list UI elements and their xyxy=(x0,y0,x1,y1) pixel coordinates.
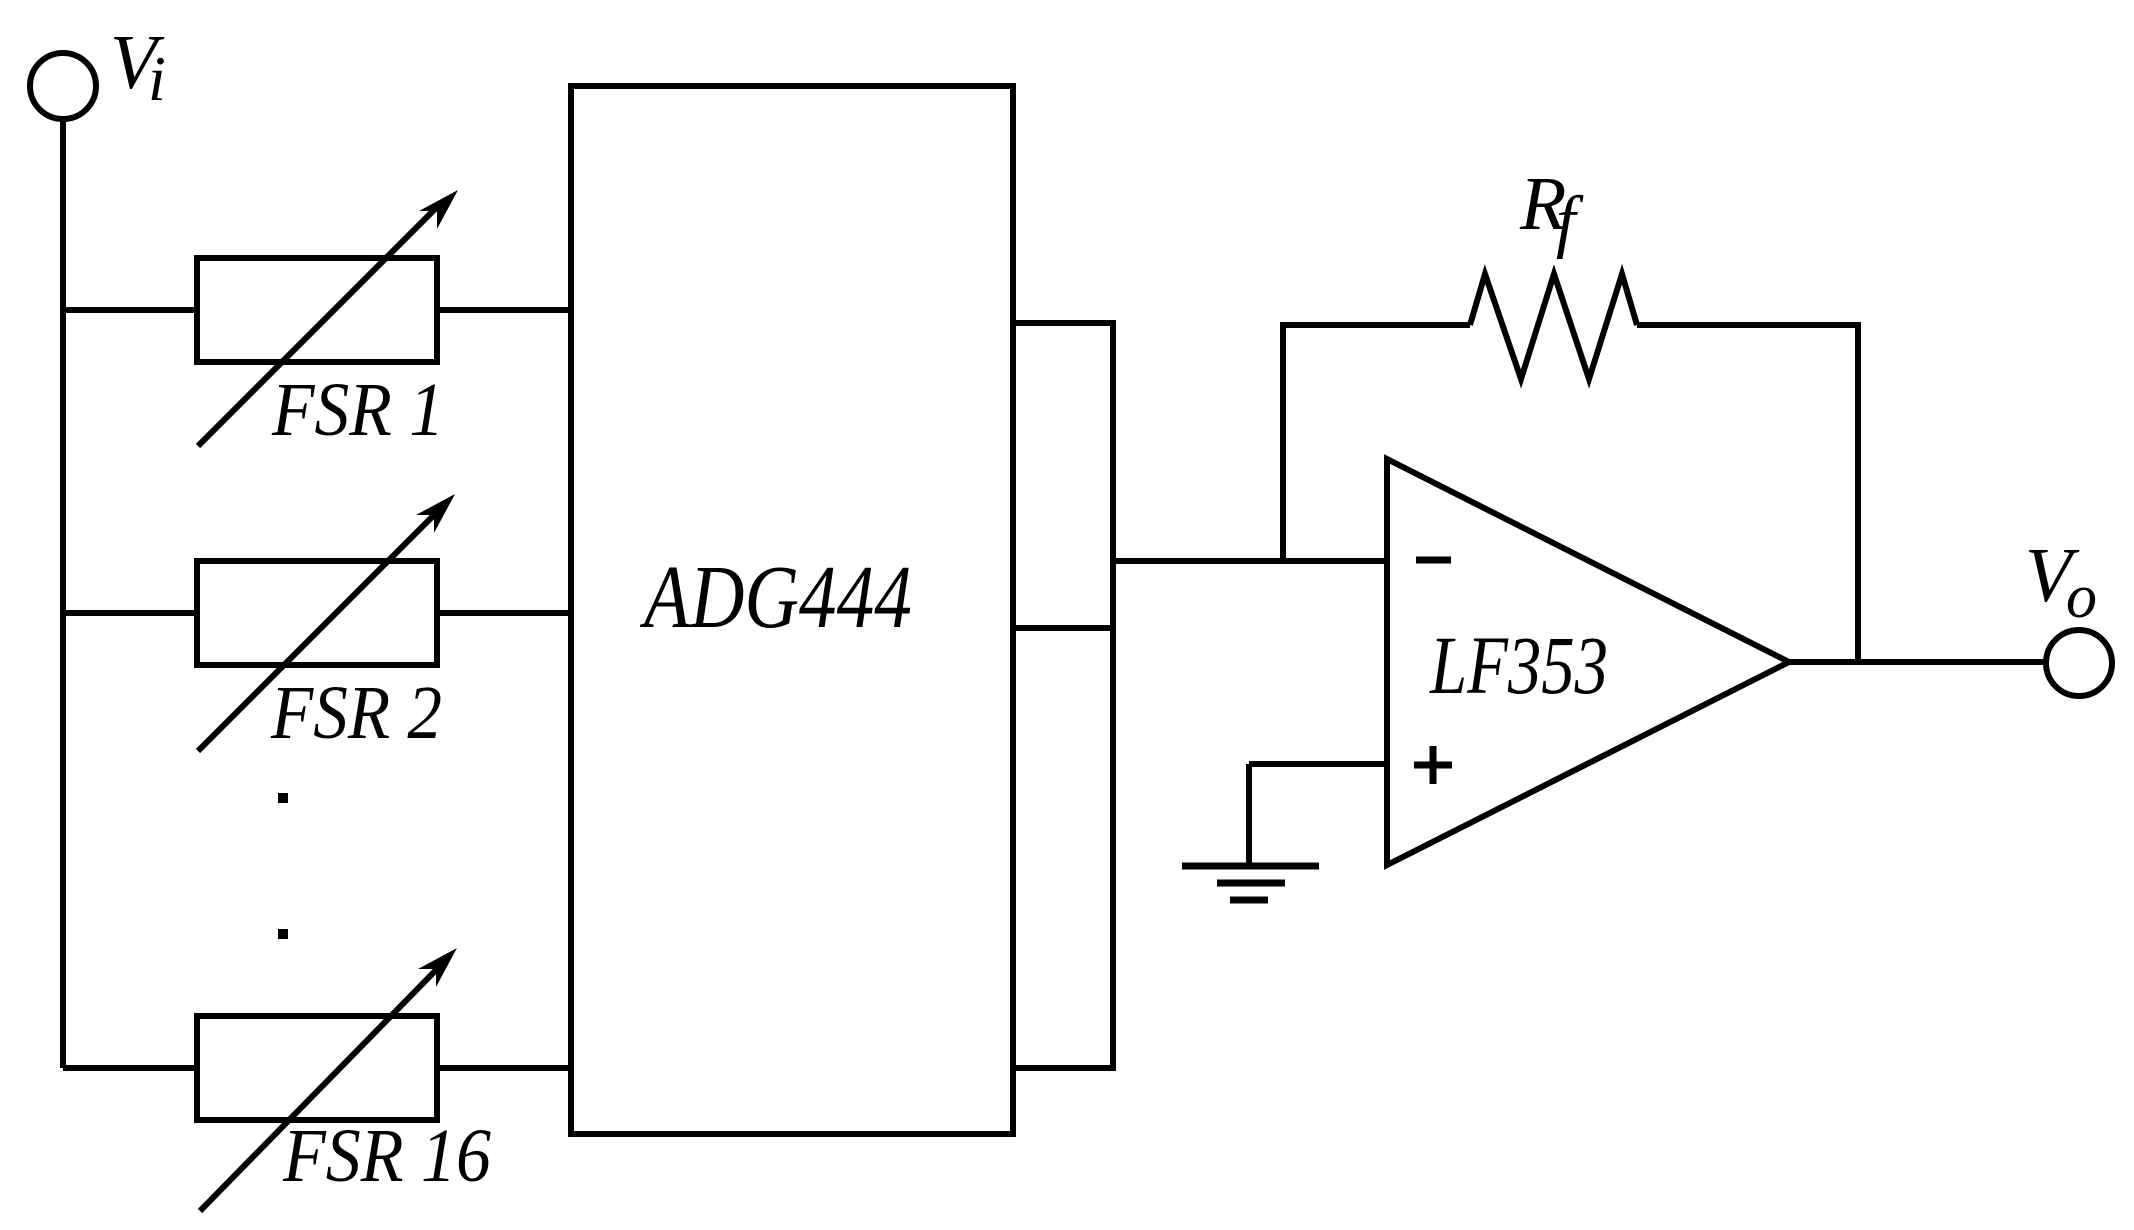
wire: feedback right vertical xyxy=(1855,325,1861,662)
resistor Rf zigzag xyxy=(1470,274,1637,379)
wire: bus to FSR1 xyxy=(63,307,200,313)
multiplexer ADG444 xyxy=(571,86,1013,1134)
wire: FSR2 to ADG444 xyxy=(437,610,574,616)
wire: FSR16 to ADG444 xyxy=(437,1065,574,1071)
wire: ground drop xyxy=(1246,764,1252,866)
label Rf xyxy=(1519,162,1584,260)
resistor FSR16 arrow xyxy=(200,948,457,1211)
wire: feedback left vertical xyxy=(1280,325,1286,561)
resistor FSR16 body xyxy=(197,1016,437,1120)
ground xyxy=(1182,866,1319,900)
wire: bus to FSR16 xyxy=(63,1065,200,1071)
svg-text:ADG444: ADG444 xyxy=(640,548,912,647)
wire: bus to FSR2 xyxy=(63,610,200,616)
svg-text:LF353: LF353 xyxy=(1429,619,1608,711)
terminal Vi xyxy=(30,53,96,119)
wire: FSR1 to ADG444 xyxy=(437,307,574,313)
resistor FSR1 arrow xyxy=(198,190,458,446)
svg-text:i: i xyxy=(148,43,166,114)
wire: mux output to op-amp inverting input xyxy=(1113,558,1387,564)
wire: op-amp output xyxy=(1789,659,2046,665)
label Vo xyxy=(2025,532,2097,631)
resistor FSR2 body xyxy=(197,561,437,665)
wire: feedback top right segment xyxy=(1637,322,1861,328)
op-amp plus input symbol xyxy=(1414,746,1452,784)
connector box top xyxy=(1013,323,1113,628)
op-amp U1 LF353 xyxy=(1387,459,1789,865)
op-amp minus input symbol xyxy=(1416,557,1451,564)
svg-text:FSR 1: FSR 1 xyxy=(271,368,444,452)
svg-text:FSR 16: FSR 16 xyxy=(282,1114,491,1198)
ellipsis dot 1 xyxy=(278,793,288,803)
resistor FSR2 arrow xyxy=(198,494,455,751)
connector box bottom xyxy=(1013,628,1113,1068)
resistor FSR1 body xyxy=(197,258,437,362)
wire: non-inverting input xyxy=(1249,761,1387,767)
terminal Vo xyxy=(2046,630,2112,696)
wire: input bus vertical from Vi xyxy=(60,119,66,1068)
ellipsis dot 2 xyxy=(278,929,288,939)
svg-text:FSR 2: FSR 2 xyxy=(270,671,442,755)
label Vi xyxy=(110,19,166,114)
wire: feedback top left segment xyxy=(1280,322,1470,328)
svg-text:o: o xyxy=(2066,563,2097,631)
